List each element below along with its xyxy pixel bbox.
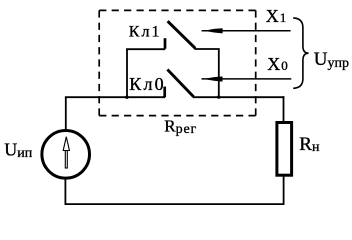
switch Кл0 contact post — [163, 87, 166, 98]
wire Кл1 horizontal right — [195, 48, 220, 50]
wire left vertical (Uип top) — [65, 97, 67, 130]
control arrow X1 line — [202, 30, 291, 32]
source Uип circle — [42, 131, 90, 179]
dashed box Rрег block : top edge — [99, 9, 256, 11]
resistor Rн body — [277, 123, 292, 176]
wire top main (left segment to Кл0 contact) — [65, 96, 165, 98]
wire left vertical (Uип bottom) — [64, 179, 66, 204]
switch Кл1 blade — [168, 21, 196, 48]
brace for Uупр — [293, 18, 308, 88]
switch Кл1 contact post — [164, 38, 167, 49]
wire right vertical (Rн top) — [283, 96, 285, 122]
control arrow X0 line — [202, 78, 292, 80]
junction node at Кл1 wire/bottom wire — [217, 95, 220, 98]
junction node at branch/bottom wire — [125, 96, 128, 99]
wire Кл1 horizontal left — [126, 48, 165, 50]
control arrow X0 head — [207, 76, 223, 81]
wire top main (right segment from Кл0 blade to Rн) — [193, 96, 284, 98]
dashed box Rрег block : left edge — [98, 10, 100, 115]
svg-text:Кл0: Кл0 — [129, 74, 166, 94]
wire branch vertical to Кл1 — [126, 49, 128, 97]
wire vertical from Кл1 to junction — [218, 49, 220, 97]
wire right vertical (to Rн bottom) — [283, 176, 285, 204]
control arrow X1 head — [207, 28, 223, 33]
svg-text:Кл1: Кл1 — [129, 23, 162, 40]
dashed box Rрег block : bottom edge — [99, 115, 256, 117]
wire bottom — [65, 203, 285, 205]
source Uип arrow shaft — [65, 151, 67, 169]
switch Кл0 blade — [167, 70, 193, 97]
source Uип arrow head — [63, 137, 69, 151]
dashed box Rрег block : right edge — [255, 10, 257, 115]
